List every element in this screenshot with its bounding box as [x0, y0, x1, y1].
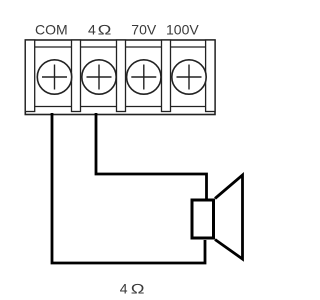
wire from 4Ω terminal to speaker plus lead [96, 113, 207, 199]
screw terminal 4Ω [82, 60, 116, 94]
screw terminal 100V [172, 60, 206, 94]
barrier bar between COM and 4Ω [72, 40, 81, 112]
screw terminal 70V [127, 60, 161, 94]
terminal block cell bottom rail [35, 106, 206, 108]
barrier bar between 70V and 100V [162, 40, 171, 112]
barrier bar between 4Ω and 70V [117, 40, 126, 112]
terminal block TB1 outer body [25, 40, 215, 115]
screw terminal COM [37, 60, 71, 94]
svg-text:4: 4 [120, 280, 128, 296]
svg-text:100V: 100V [166, 21, 199, 37]
wire from COM terminal to speaker minus lead [52, 113, 205, 263]
barrier bar right end [206, 40, 215, 112]
speaker LS driver body [192, 200, 214, 238]
svg-text:Ω: Ω [98, 22, 112, 38]
terminal block cell top rail [35, 46, 206, 48]
svg-text:Ω: Ω [131, 281, 145, 297]
svg-text:COM: COM [35, 21, 68, 37]
svg-text:70V: 70V [131, 21, 157, 37]
speaker LS cone [215, 175, 243, 259]
barrier bar left end [25, 40, 34, 112]
svg-text:4: 4 [88, 21, 96, 37]
